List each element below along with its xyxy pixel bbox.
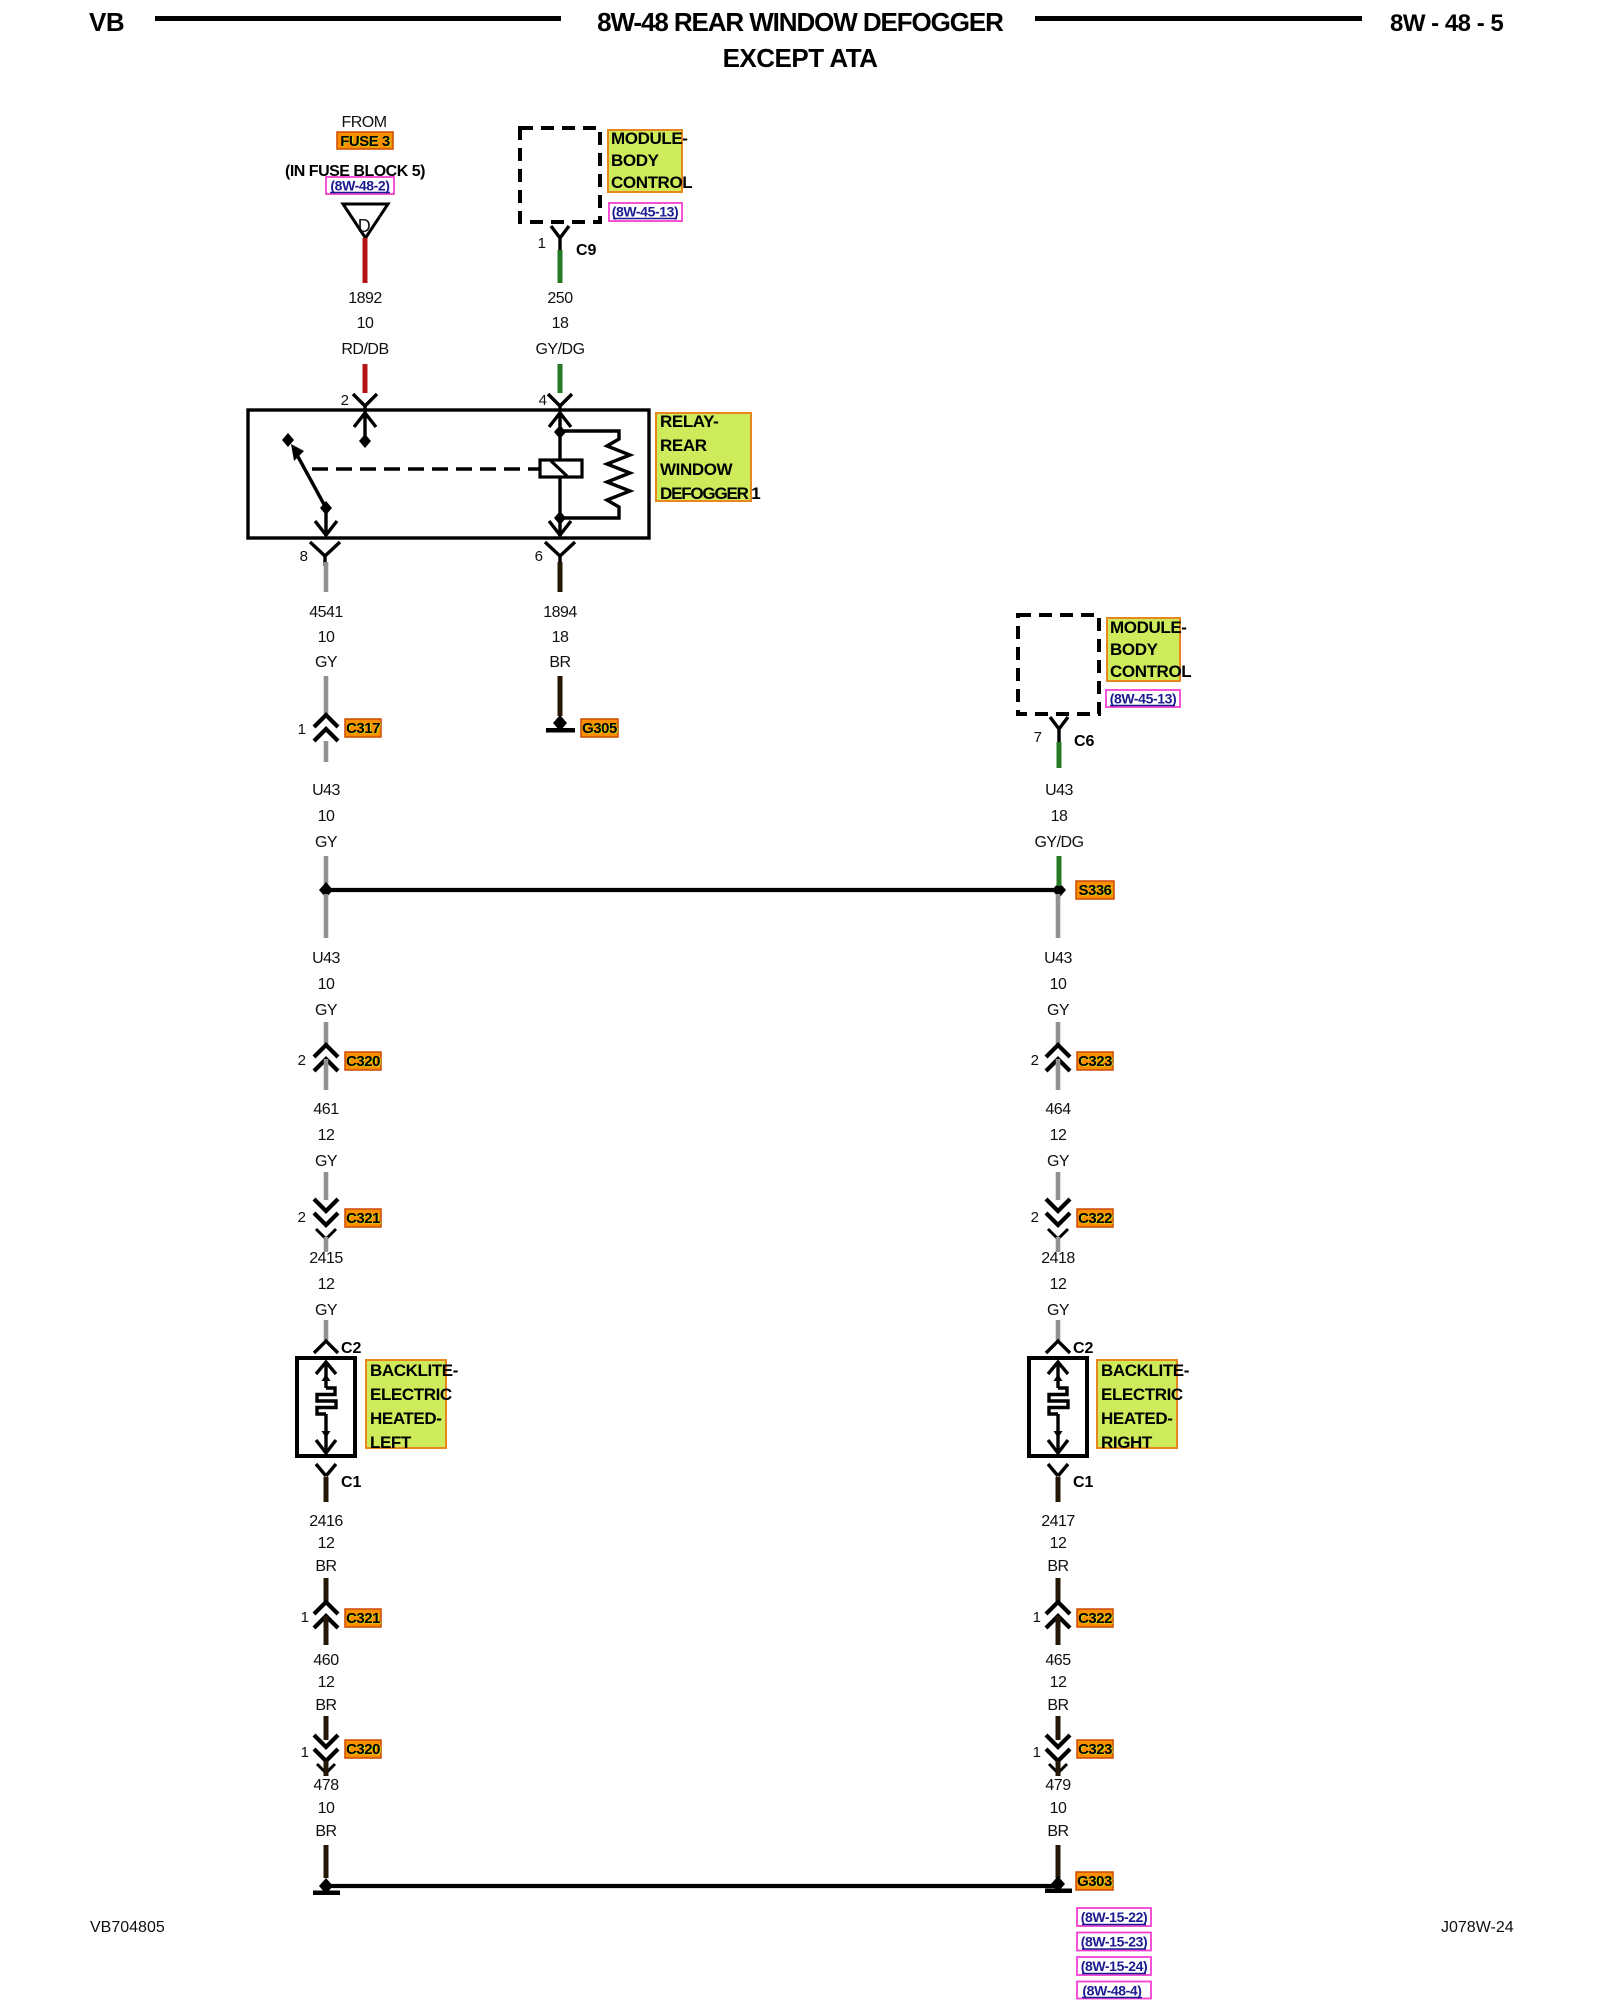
wire GY to C320 left <box>324 1022 329 1044</box>
svg-text:(8W-48-2): (8W-48-2) <box>330 178 389 194</box>
wire label 1894 18 BR <box>543 604 577 671</box>
svg-text:2: 2 <box>298 1209 306 1226</box>
svg-text:WINDOW: WINDOW <box>660 460 734 479</box>
svg-text:1: 1 <box>1033 1744 1041 1761</box>
wire GY to splice S336 <box>324 856 329 886</box>
wire BR to ground right <box>1056 1845 1061 1878</box>
ground symbol G303 right <box>1045 1876 1072 1893</box>
svg-text:2418: 2418 <box>1041 1250 1075 1267</box>
link 8W-48-4 <box>1077 1982 1151 1999</box>
relay coil to pin 6 arrow <box>549 477 571 536</box>
svg-text:2416: 2416 <box>309 1513 343 1530</box>
header rule right <box>1035 16 1362 21</box>
svg-text:GY: GY <box>315 1302 338 1319</box>
svg-text:(8W-45-13): (8W-45-13) <box>612 204 679 220</box>
svg-text:8: 8 <box>300 548 308 565</box>
svg-text:FROM: FROM <box>341 114 386 131</box>
svg-text:2: 2 <box>1031 1052 1039 1069</box>
svg-text:BR: BR <box>315 1697 336 1714</box>
svg-text:ELECTRIC: ELECTRIC <box>1101 1385 1183 1404</box>
svg-text:479: 479 <box>1045 1777 1071 1794</box>
svg-text:2: 2 <box>341 392 349 409</box>
svg-text:8W - 48 - 5: 8W - 48 - 5 <box>1390 10 1503 37</box>
svg-text:HEATED-: HEATED- <box>1101 1409 1173 1428</box>
svg-text:C6: C6 <box>1074 733 1095 750</box>
svg-text:BR: BR <box>315 1823 336 1840</box>
svg-text:BR: BR <box>1047 1697 1068 1714</box>
svg-text:BR: BR <box>315 1558 336 1575</box>
svg-text:C320: C320 <box>346 1053 380 1070</box>
wire GY to C321 left <box>324 1172 329 1200</box>
svg-text:(8W-48-4): (8W-48-4) <box>1082 1983 1141 1999</box>
pin 2 connector at relay <box>341 392 377 411</box>
wire label U43 18 GY/DG <box>1034 782 1083 851</box>
svg-text:1: 1 <box>301 1609 309 1626</box>
wire GY/DG from C6 <box>1057 742 1062 768</box>
svg-text:G305: G305 <box>582 720 617 737</box>
wire BR to C320 left lower <box>324 1716 329 1740</box>
svg-text:GY: GY <box>1047 1302 1070 1319</box>
svg-text:C323: C323 <box>1078 1053 1112 1070</box>
connector C2 right <box>1046 1340 1094 1357</box>
wire label 461 12 GY <box>313 1101 339 1170</box>
wire GY/DG to splice S336 <box>1057 856 1062 886</box>
wire label 460 12 BR <box>313 1652 339 1714</box>
svg-text:2: 2 <box>298 1052 306 1069</box>
svg-text:4: 4 <box>539 392 547 409</box>
wire label 478 10 BR <box>313 1777 339 1840</box>
pin 7 connector C6 <box>1034 717 1095 750</box>
pin 6 connector below relay <box>535 542 575 566</box>
relay pin 4 internal arrow <box>549 411 571 460</box>
wire label 464 12 GY <box>1045 1101 1071 1170</box>
svg-text:C322: C322 <box>1078 1610 1112 1627</box>
svg-text:464: 464 <box>1045 1101 1071 1118</box>
svg-text:BR: BR <box>1047 1823 1068 1840</box>
svg-text:BACKLITE-: BACKLITE- <box>370 1361 458 1380</box>
svg-text:U43: U43 <box>312 950 340 967</box>
wire label 250 18 GY/DG <box>535 290 584 358</box>
svg-text:460: 460 <box>313 1652 339 1669</box>
ground symbol left <box>313 1878 340 1895</box>
fuse symbol D triangle <box>343 204 388 238</box>
svg-text:GY: GY <box>315 834 338 851</box>
svg-text:BR: BR <box>549 654 570 671</box>
svg-text:12: 12 <box>318 1276 335 1293</box>
wire GY pin8 down <box>324 562 329 592</box>
label C321 <box>345 1209 381 1228</box>
svg-text:10: 10 <box>318 808 335 825</box>
label S336 <box>1076 881 1114 900</box>
backlite heated right box <box>1029 1358 1087 1456</box>
label BACKLITE-ELECTRIC HEATED-RIGHT <box>1097 1360 1189 1452</box>
wire label 1892 10 RD/DB <box>341 290 388 358</box>
svg-text:12: 12 <box>1050 1127 1067 1144</box>
svg-text:D: D <box>358 216 371 236</box>
svg-text:10: 10 <box>1050 976 1067 993</box>
connector C322 inline right <box>1031 1199 1070 1252</box>
wire label 4541 10 GY <box>309 604 343 671</box>
wire GY to backlite right <box>1056 1320 1061 1340</box>
relay pin 8 internal arrow <box>315 508 337 536</box>
svg-text:C322: C322 <box>1078 1210 1112 1227</box>
svg-text:C317: C317 <box>346 720 380 737</box>
wire BR to C321 left lower <box>324 1578 329 1604</box>
label C317 <box>345 719 381 738</box>
svg-text:10: 10 <box>357 315 374 332</box>
label C320 <box>345 1052 381 1071</box>
svg-text:18: 18 <box>552 629 569 646</box>
link 8W-45-13 top <box>609 203 682 221</box>
svg-text:C2: C2 <box>341 1340 362 1357</box>
svg-text:8W-48 REAR WINDOW DEFOGGER: 8W-48 REAR WINDOW DEFOGGER <box>597 7 1004 37</box>
pin 1 connector C9 <box>538 226 597 259</box>
svg-text:VB: VB <box>89 7 124 37</box>
connector C321 inline left lower <box>301 1602 338 1645</box>
wire GY below C317 <box>324 741 329 762</box>
svg-text:MODULE-: MODULE- <box>611 129 688 148</box>
label BACKLITE-ELECTRIC HEATED-LEFT <box>366 1360 458 1452</box>
svg-text:1: 1 <box>298 721 306 738</box>
svg-text:6: 6 <box>535 548 543 565</box>
svg-text:10: 10 <box>318 629 335 646</box>
connector C2 left <box>314 1340 362 1357</box>
svg-text:LEFT: LEFT <box>370 1433 412 1452</box>
svg-text:BR: BR <box>1047 1558 1068 1575</box>
svg-text:BODY: BODY <box>611 151 660 170</box>
svg-text:VB704805: VB704805 <box>90 1919 165 1936</box>
svg-text:10: 10 <box>318 1800 335 1817</box>
wire GY to C317 <box>324 676 329 714</box>
svg-text:4541: 4541 <box>309 604 343 621</box>
ground bus line <box>326 1884 1058 1888</box>
svg-text:RD/DB: RD/DB <box>341 341 388 358</box>
svg-text:(8W-45-13): (8W-45-13) <box>1110 691 1177 707</box>
wire label 2417 12 BR <box>1041 1513 1075 1575</box>
svg-text:J078W-24: J078W-24 <box>1441 1919 1514 1936</box>
svg-text:REAR: REAR <box>660 436 707 455</box>
connector C320 inline left <box>298 1045 338 1090</box>
svg-text:HEATED-: HEATED- <box>370 1409 442 1428</box>
connector C321 inline left <box>298 1199 338 1252</box>
svg-text:10: 10 <box>1050 1800 1067 1817</box>
svg-text:1: 1 <box>1033 1609 1041 1626</box>
svg-text:(8W-15-23): (8W-15-23) <box>1081 1934 1148 1950</box>
wire BR to ground left <box>324 1845 329 1878</box>
wire BR from C1 left <box>324 1477 329 1502</box>
module body control top dashed box <box>520 128 600 222</box>
wire GY to C323 right <box>1056 1022 1061 1044</box>
svg-text:GY/DG: GY/DG <box>535 341 584 358</box>
wire BR from C1 right <box>1056 1477 1061 1502</box>
svg-text:12: 12 <box>318 1674 335 1691</box>
svg-text:DEFOGGER 1: DEFOGGER 1 <box>660 484 760 503</box>
link 8W-15-23 <box>1077 1933 1151 1951</box>
svg-text:465: 465 <box>1045 1652 1071 1669</box>
svg-text:12: 12 <box>1050 1535 1067 1552</box>
svg-text:478: 478 <box>313 1777 339 1794</box>
svg-text:7: 7 <box>1034 729 1042 746</box>
wire GY/DG segment to relay <box>558 364 563 393</box>
relay coil dashed control line <box>312 467 540 470</box>
fuse feed label FUSE 3 <box>337 132 393 151</box>
svg-text:U43: U43 <box>312 782 340 799</box>
svg-text:GY: GY <box>1047 1153 1070 1170</box>
wire GY below S336 right <box>1056 894 1061 938</box>
svg-text:U43: U43 <box>1045 782 1073 799</box>
connector C320 inline left lower <box>301 1735 338 1776</box>
svg-text:U43: U43 <box>1044 950 1072 967</box>
relay resistor branch <box>560 431 630 518</box>
relay K1 outline box <box>248 410 649 538</box>
svg-text:GY: GY <box>315 654 338 671</box>
svg-text:C320: C320 <box>346 1741 380 1758</box>
label MODULE-BODY CONTROL top <box>608 129 692 192</box>
pin 4 connector at relay <box>539 392 572 411</box>
wire GY below S336 left <box>324 894 329 938</box>
wire GY to backlite left <box>324 1320 329 1340</box>
svg-text:C1: C1 <box>341 1474 362 1491</box>
svg-text:GY: GY <box>1047 1002 1070 1019</box>
svg-text:C9: C9 <box>576 242 597 259</box>
svg-text:BACKLITE-: BACKLITE- <box>1101 1361 1189 1380</box>
svg-text:12: 12 <box>1050 1674 1067 1691</box>
ground wire BR from pin6 <box>558 562 563 592</box>
link 8W-15-22 <box>1077 1908 1151 1926</box>
svg-text:C321: C321 <box>346 1610 380 1627</box>
svg-text:FUSE 3: FUSE 3 <box>340 133 390 150</box>
svg-text:(8W-15-22): (8W-15-22) <box>1081 1909 1148 1925</box>
backlite heated left box <box>297 1358 355 1456</box>
link 8W-45-13 right <box>1106 690 1180 707</box>
splice S336 bus <box>319 882 1066 898</box>
relay switch blade <box>282 433 332 515</box>
link 8W-15-24 <box>1077 1957 1151 1975</box>
connector C323 inline right <box>1031 1045 1070 1090</box>
svg-text:C2: C2 <box>1073 1340 1094 1357</box>
label C322 <box>1077 1209 1113 1228</box>
label G305 <box>581 719 618 738</box>
svg-text:12: 12 <box>318 1127 335 1144</box>
label C322 lower right <box>1077 1609 1113 1628</box>
svg-text:18: 18 <box>552 315 569 332</box>
label C323 <box>1077 1052 1113 1071</box>
wire BR to C323 right lower <box>1056 1716 1061 1740</box>
svg-text:GY: GY <box>315 1002 338 1019</box>
svg-text:18: 18 <box>1051 808 1068 825</box>
wire label 465 12 BR <box>1045 1652 1071 1714</box>
link 8W-48-2 <box>326 177 394 194</box>
svg-text:RELAY-: RELAY- <box>660 412 718 431</box>
connector C1 right <box>1048 1464 1094 1491</box>
svg-text:MODULE-: MODULE- <box>1110 618 1187 637</box>
wire label 2418 12 GY <box>1041 1250 1075 1319</box>
connector C322 inline right lower <box>1033 1602 1070 1645</box>
svg-text:C323: C323 <box>1078 1741 1112 1758</box>
wire label 2416 12 BR <box>309 1513 343 1575</box>
header rule left <box>155 16 561 21</box>
svg-text:EXCEPT ATA: EXCEPT ATA <box>723 43 879 73</box>
wire RD segment to relay <box>363 364 368 393</box>
wire label U43 10 GY left <box>312 782 340 851</box>
svg-text:GY/DG: GY/DG <box>1034 834 1083 851</box>
svg-text:12: 12 <box>1050 1276 1067 1293</box>
svg-text:S336: S336 <box>1078 882 1111 899</box>
label C323 lower right <box>1077 1740 1113 1759</box>
svg-text:461: 461 <box>313 1101 339 1118</box>
svg-text:GY: GY <box>315 1153 338 1170</box>
svg-text:250: 250 <box>547 290 573 307</box>
wire label U43 10 GY mid left <box>312 950 340 1019</box>
wire BR to G305 <box>558 676 563 716</box>
svg-text:G303: G303 <box>1077 1873 1112 1890</box>
svg-text:10: 10 <box>318 976 335 993</box>
svg-text:CONTROL: CONTROL <box>1110 662 1191 681</box>
svg-text:C321: C321 <box>346 1210 380 1227</box>
svg-text:ELECTRIC: ELECTRIC <box>370 1385 452 1404</box>
wire label 479 10 BR <box>1045 1777 1071 1840</box>
svg-text:1892: 1892 <box>348 290 382 307</box>
svg-text:2417: 2417 <box>1041 1513 1075 1530</box>
svg-text:C1: C1 <box>1073 1474 1094 1491</box>
wire BR to C322 right lower <box>1056 1578 1061 1604</box>
svg-text:(8W-15-24): (8W-15-24) <box>1081 1958 1148 1974</box>
relay coil box <box>540 460 582 477</box>
svg-text:2: 2 <box>1031 1209 1039 1226</box>
connector C317 inline <box>298 715 338 741</box>
wire GY/DG from C9 <box>558 250 563 283</box>
svg-text:2415: 2415 <box>309 1250 343 1267</box>
connector C1 left <box>316 1464 362 1491</box>
ground G305 symbol <box>546 715 575 733</box>
module body control right dashed box <box>1018 615 1099 714</box>
label C320 lower left <box>345 1740 381 1759</box>
label G303 <box>1076 1872 1113 1891</box>
label MODULE-BODY CONTROL right <box>1107 618 1191 681</box>
pin 8 connector below relay <box>300 542 340 566</box>
wire label 2415 12 GY <box>309 1250 343 1319</box>
relay pin 2 internal arrow <box>354 411 376 448</box>
connector C323 inline right lower <box>1033 1735 1070 1776</box>
svg-text:CONTROL: CONTROL <box>611 173 692 192</box>
wire RD from fuse <box>363 238 368 283</box>
svg-text:1: 1 <box>538 235 546 252</box>
label RELAY-REAR WINDOW DEFOGGER <box>656 412 760 503</box>
svg-text:RIGHT: RIGHT <box>1101 1433 1153 1452</box>
wire label U43 10 GY mid right <box>1044 950 1072 1019</box>
svg-text:1: 1 <box>301 1744 309 1761</box>
svg-text:12: 12 <box>318 1535 335 1552</box>
label C321 lower left <box>345 1609 381 1628</box>
svg-text:1894: 1894 <box>543 604 577 621</box>
svg-text:BODY: BODY <box>1110 640 1159 659</box>
wire GY to C322 right <box>1056 1172 1061 1200</box>
